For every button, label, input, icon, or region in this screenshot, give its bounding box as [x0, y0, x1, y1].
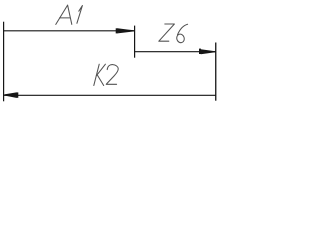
label Z6	[159, 24, 188, 44]
dimension line A1	[4, 30, 135, 32]
arrowhead A1 (points right)	[116, 29, 134, 33]
extension line middle	[134, 26, 136, 58]
dimension line K2	[4, 94, 216, 96]
dimension line Z6	[135, 51, 216, 53]
extension line right	[215, 43, 217, 101]
label A1	[56, 5, 83, 24]
arrowhead Z6 (points right)	[200, 49, 216, 54]
label K2	[94, 64, 118, 85]
extension line left	[3, 22, 5, 102]
arrowhead K2 (points left)	[4, 93, 17, 97]
